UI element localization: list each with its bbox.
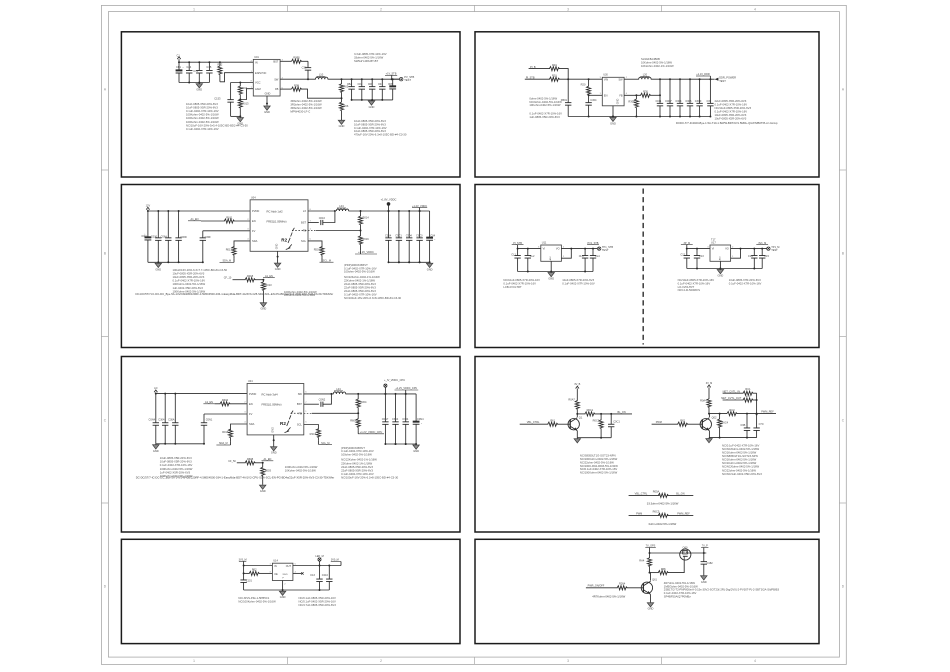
svg-text:R0C1: R0C1 bbox=[587, 408, 594, 412]
net label BL_ON jumper bbox=[667, 492, 693, 495]
note text jumper2 bbox=[649, 522, 677, 526]
resistor R605 enable divider panel5 bbox=[245, 457, 255, 465]
svg-text:GND: GND bbox=[548, 277, 554, 281]
net label NET_CVTL_IN bbox=[723, 389, 744, 393]
svg-text:C305: C305 bbox=[685, 99, 692, 103]
wire base Q2 bbox=[687, 423, 702, 425]
svg-text:PVDD: PVDD bbox=[252, 209, 259, 213]
net label PI_STB bbox=[512, 242, 524, 249]
svg-text:EN: EN bbox=[249, 402, 253, 406]
svg-text:GND: GND bbox=[275, 267, 281, 271]
wire SDA dogleg panel5 bbox=[231, 424, 248, 430]
ground IC U30 bbox=[612, 116, 614, 119]
net label +1.2V_VDDC tap bbox=[355, 250, 377, 254]
svg-text:EN/SYNC: EN/SYNC bbox=[255, 71, 266, 75]
svg-text:CF_10: CF_10 bbox=[224, 277, 232, 280]
svg-text:VBL_CTRL: VBL_CTRL bbox=[527, 421, 540, 424]
svg-text:0.1uF-0402-X7R-10%-16V: 0.1uF-0402-X7R-10%-16V bbox=[160, 463, 193, 467]
ground LDO U17 bbox=[719, 269, 721, 270]
svg-text:NC/10uF-16V-20%-5×5.4-105C-BD-: NC/10uF-16V-20%-5×5.4-105C-BD-BD2-#4-C3-… bbox=[186, 123, 248, 127]
junction dots input rail panel1 bbox=[178, 61, 221, 63]
svg-text:TEST: TEST bbox=[404, 78, 411, 82]
wire emitter ground rail panel6 right bbox=[709, 437, 757, 439]
svg-text:R05: R05 bbox=[388, 82, 393, 86]
svg-text:GND: GND bbox=[155, 267, 161, 271]
note text panel3 right B bbox=[344, 275, 402, 300]
svg-text:CB2: CB2 bbox=[347, 82, 353, 86]
svg-text:TEST: TEST bbox=[771, 248, 778, 252]
svg-text:R013: R013 bbox=[242, 102, 249, 106]
wire SCL dogleg panel5 bbox=[304, 425, 319, 430]
svg-text:1: 1 bbox=[193, 7, 195, 11]
wire enable divider node panel3 bbox=[255, 279, 265, 281]
svg-text:22uF-0805-X5R-20%-6V3: 22uF-0805-X5R-20%-6V3 bbox=[344, 289, 376, 293]
svg-text:SW: SW bbox=[298, 392, 303, 396]
wire control drop bbox=[756, 393, 758, 415]
svg-text:CL2: CL2 bbox=[530, 254, 535, 258]
dashed divider panel4 bbox=[642, 189, 644, 345]
svg-text:R06: R06 bbox=[344, 104, 349, 108]
wire R02 to EN pin bbox=[220, 73, 253, 82]
svg-text:C030: C030 bbox=[151, 234, 158, 238]
svg-text:C304: C304 bbox=[590, 98, 597, 102]
wire IC GND stem panel1 bbox=[266, 96, 268, 105]
note text panel1 bottom right bbox=[354, 119, 407, 137]
svg-text:R2: R2 bbox=[281, 238, 287, 243]
svg-text:PVDD: PVDD bbox=[249, 392, 256, 396]
capacitor CL2 bbox=[525, 249, 535, 272]
svg-text:R62: R62 bbox=[680, 418, 685, 422]
svg-text:R017: R017 bbox=[226, 247, 233, 251]
svg-text:Q61: Q61 bbox=[652, 578, 657, 582]
panel 3 border bbox=[121, 185, 460, 348]
svg-text:NC/1Kohm-0402-5%-1/16W: NC/1Kohm-0402-5%-1/16W bbox=[722, 458, 757, 462]
panel 7 border bbox=[121, 539, 460, 643]
wire ADJ jog U11 bbox=[561, 248, 572, 259]
resistor RC3 series bbox=[727, 408, 737, 416]
wire collector join bbox=[650, 572, 651, 574]
svg-text:GND: GND bbox=[427, 267, 433, 271]
capacitor C04 output bbox=[378, 78, 386, 101]
wire SW to inductor panel5 bbox=[304, 393, 334, 395]
svg-text:C5C1: C5C1 bbox=[395, 234, 402, 238]
svg-text:C010: C010 bbox=[319, 216, 326, 220]
test point DDR_POWER arrow bbox=[710, 76, 736, 83]
capacitor CL4 bbox=[590, 249, 600, 272]
ground panel7 bbox=[282, 590, 284, 591]
svg-text:C76: C76 bbox=[193, 69, 198, 73]
svg-text:CL4: CL4 bbox=[595, 254, 600, 258]
svg-text:CL3: CL3 bbox=[579, 254, 584, 258]
resistor R501 SCL series bbox=[314, 247, 324, 258]
svg-text:C04: C04 bbox=[430, 234, 435, 238]
capacitor C06A bbox=[161, 211, 172, 262]
net label PWM jumper bbox=[629, 512, 660, 515]
svg-text:ADJ: ADJ bbox=[549, 256, 552, 260]
svg-text:R02: R02 bbox=[218, 63, 223, 67]
power flag +1V_VDDC_CPU bbox=[384, 378, 405, 394]
svg-text:R0C2: R0C2 bbox=[593, 418, 600, 422]
transistor Q2 bbox=[700, 415, 717, 430]
svg-text:10uF-0805-X5R-20%-6V3: 10uF-0805-X5R-20%-6V3 bbox=[160, 456, 192, 460]
wire ground rail panel3 input bbox=[148, 261, 204, 263]
wire FV pin panel3 bbox=[203, 230, 250, 232]
ground output caps panel3 bbox=[429, 262, 431, 263]
svg-text:C30F: C30F bbox=[205, 235, 212, 239]
svg-text:SP4BF50A/Q7P0MBz: SP4BF50A/Q7P0MBz bbox=[664, 594, 692, 598]
svg-text:C06D: C06D bbox=[180, 235, 187, 239]
resistor R01b bbox=[549, 74, 559, 82]
capacitor C06D bbox=[175, 211, 186, 262]
svg-text:Q60: Q60 bbox=[683, 546, 688, 550]
resistor R0C2 shunt bbox=[593, 414, 604, 438]
svg-text:3R3ohm-0402-5%-1/16W: 3R3ohm-0402-5%-1/16W bbox=[290, 103, 322, 107]
svg-text:C13: C13 bbox=[699, 254, 704, 258]
power flag 3V_M panel6 bbox=[706, 382, 713, 399]
svg-text:C14: C14 bbox=[748, 254, 753, 258]
note text panel5 right small bbox=[285, 465, 318, 473]
net label +1.2V_VDDC rail bbox=[412, 205, 427, 211]
svg-text:10uF-0805-X5R-20%-6V3: 10uF-0805-X5R-20%-6V3 bbox=[715, 113, 747, 117]
svg-text:C0N1: C0N1 bbox=[206, 417, 213, 421]
svg-text:FV: FV bbox=[249, 412, 253, 416]
wire AAM pin dogleg bbox=[239, 89, 253, 101]
net label CF_10 panel3 bbox=[224, 277, 246, 280]
svg-text:1uF-0805-X5R-20%-6V3: 1uF-0805-X5R-20%-6V3 bbox=[529, 115, 560, 119]
svg-text:NC/22ohm-0402-5%-1/16W: NC/22ohm-0402-5%-1/16W bbox=[580, 460, 614, 464]
capacitor C7C shunt bbox=[753, 414, 763, 437]
svg-text:22uF-0805-X5R-20%-6V3: 22uF-0805-X5R-20%-6V3 bbox=[715, 99, 747, 103]
inductor L04 panel3 bbox=[336, 204, 348, 211]
svg-text:4: 4 bbox=[754, 7, 756, 11]
svg-text:33V0: 33V0 bbox=[282, 574, 288, 576]
zone column numbers bottom bbox=[193, 659, 756, 663]
svg-text:GND: GND bbox=[617, 99, 620, 105]
svg-text:Q1: Q1 bbox=[579, 416, 583, 420]
svg-text:R01: R01 bbox=[552, 63, 557, 67]
wire input rail panel5 bbox=[155, 393, 247, 395]
svg-text:SL9GF8A4B0B: SL9GF8A4B0B bbox=[641, 57, 660, 61]
wire FB pin dashed panel3 bbox=[308, 230, 362, 232]
svg-text:10Kohm-0402-5%-1/16W: 10Kohm-0402-5%-1/16W bbox=[641, 61, 672, 65]
panel 2 border bbox=[475, 32, 819, 177]
svg-text:NC/4.7uF-0805-X5R-20%-6V3: NC/4.7uF-0805-X5R-20%-6V3 bbox=[299, 603, 337, 607]
svg-text:R605: R605 bbox=[247, 457, 254, 461]
capacitor C30A input panel5 bbox=[168, 394, 178, 444]
wire SW node panel1 bbox=[280, 78, 316, 80]
svg-text:C131: C131 bbox=[246, 579, 253, 583]
svg-text:C011: C011 bbox=[655, 99, 661, 103]
resistor R6C4 shunt bbox=[718, 414, 729, 438]
svg-text:U30: U30 bbox=[603, 74, 608, 77]
note text panel3 left bbox=[173, 268, 228, 293]
net label SDA_M panel5 bbox=[216, 442, 230, 445]
ground enable divider panel3 bbox=[262, 301, 264, 304]
wire ground rail panel7 bbox=[244, 589, 330, 591]
note text panel1 top bbox=[354, 52, 387, 63]
net label PV1_STB bbox=[587, 242, 599, 245]
note text panel5 right B bbox=[341, 458, 399, 480]
ground divider panel1 bbox=[239, 116, 241, 117]
svg-text:3: 3 bbox=[567, 7, 569, 11]
resistor R014 feedback upper panel3 bbox=[358, 211, 369, 231]
zone ticks right bbox=[839, 170, 846, 503]
resistor R0B5 bootstrap bbox=[280, 56, 308, 64]
svg-text:IN: IN bbox=[255, 60, 258, 64]
svg-text:C304: C304 bbox=[402, 417, 409, 421]
wire output rail panel3 bbox=[349, 210, 430, 212]
svg-text:MPW4030-LF-C: MPW4030-LF-C bbox=[290, 109, 310, 113]
wire FV pin panel5 bbox=[204, 413, 247, 415]
svg-text:10Kohm-0402-5%-1/16W: 10Kohm-0402-5%-1/16W bbox=[285, 468, 316, 472]
net label +1.1V_DDR bbox=[696, 73, 710, 79]
wire collector Q61 bbox=[650, 573, 652, 581]
svg-text:33.3ohm-0402-5%-1/16W: 33.3ohm-0402-5%-1/16W bbox=[647, 501, 679, 505]
note text panel1 left bbox=[186, 102, 248, 131]
wire IC GND stem panel7 bbox=[282, 581, 284, 591]
svg-text:GND: GND bbox=[610, 121, 616, 125]
zone column numbers top bbox=[193, 7, 756, 11]
net label 7V_GPS bbox=[645, 545, 656, 553]
wire FB pin dashed panel5 bbox=[304, 412, 359, 414]
wire GND stem U11 bbox=[550, 261, 552, 271]
svg-text:R304: R304 bbox=[222, 398, 229, 402]
capacitor C07 output bbox=[357, 78, 365, 101]
ground LDO U11 bbox=[550, 272, 552, 273]
wire base Q61 bbox=[627, 587, 644, 589]
resistor R016 feedback lower panel3 bbox=[358, 231, 369, 251]
resistor R6C5 jumper bbox=[653, 510, 669, 518]
zone row letters left bbox=[104, 87, 107, 588]
svg-text:1uF-0402-X5R-20%-6V3: 1uF-0402-X5R-20%-6V3 bbox=[160, 470, 191, 474]
sheet outer frame bbox=[101, 5, 846, 664]
svg-text:TEST: TEST bbox=[602, 248, 609, 252]
svg-text:U14: U14 bbox=[273, 559, 278, 563]
resistor R04 bbox=[238, 83, 247, 100]
power flag 3V_B bbox=[574, 383, 580, 401]
svg-text:100ohm-0402-5%-1/16W: 100ohm-0402-5%-1/16W bbox=[341, 452, 372, 456]
wire emitter Q61 bbox=[650, 595, 652, 603]
note text panel1 center bbox=[290, 99, 322, 113]
power flag 12V bbox=[146, 204, 151, 211]
resistor R015 enable divider panel3 bbox=[245, 274, 255, 282]
svg-text:R3C4: R3C4 bbox=[310, 432, 317, 436]
svg-text:+1.8V_VDDC: +1.8V_VDDC bbox=[381, 197, 397, 201]
svg-text:100Kohm-0402-5%-1/16W: 100Kohm-0402-5%-1/16W bbox=[285, 465, 318, 469]
svg-text:4R7Kohm-0402-5%-1/16W: 4R7Kohm-0402-5%-1/16W bbox=[592, 594, 625, 598]
IC U14 LDO panel7 bbox=[269, 559, 296, 586]
capacitor C76 bbox=[193, 62, 202, 82]
svg-text:NC/NC/1uF-0402-X5R-20%-6V3: NC/NC/1uF-0402-X5R-20%-6V3 bbox=[722, 472, 762, 476]
capacitor CB1 electrolytic bbox=[176, 62, 185, 82]
capacitor R05 bulk electrolytic bbox=[388, 78, 396, 100]
svg-text:1uF-0402-X5R-20%-6V3: 1uF-0402-X5R-20%-6V3 bbox=[173, 286, 204, 290]
svg-text:C30: C30 bbox=[706, 99, 711, 103]
svg-text:0.1uF-0402-X7R-10%-16V: 0.1uF-0402-X7R-10%-16V bbox=[715, 103, 748, 107]
panel 6 border bbox=[475, 357, 819, 533]
svg-text:SCL: SCL bbox=[297, 423, 303, 427]
resistor R017 SDA series bbox=[226, 247, 236, 259]
wire ground rail panel1 input bbox=[179, 82, 209, 84]
svg-text:C3C0: C3C0 bbox=[695, 99, 702, 103]
capacitor bank output panel5 bbox=[382, 393, 409, 445]
svg-text:TEST: TEST bbox=[719, 79, 726, 83]
wire R01a to input node bbox=[559, 69, 568, 80]
svg-text:R01: R01 bbox=[552, 74, 557, 78]
svg-text:4: 4 bbox=[754, 659, 756, 663]
svg-text:0.1uF-0402-X7R-10%-16V: 0.1uF-0402-X7R-10%-16V bbox=[344, 293, 377, 297]
svg-text:100Kohm-0402-5%-1/16W: 100Kohm-0402-5%-1/16W bbox=[186, 116, 219, 120]
wire output rail panel7 bbox=[293, 565, 341, 567]
ground feedback divider panel1 out bbox=[341, 119, 343, 120]
resistor R30 feedback bbox=[641, 90, 651, 98]
panel 8 border bbox=[475, 539, 819, 643]
svg-text:C04: C04 bbox=[378, 82, 383, 86]
svg-text:VIN: VIN bbox=[604, 77, 608, 81]
svg-text:R2: R2 bbox=[280, 421, 286, 426]
svg-text:GND: GND bbox=[276, 244, 279, 250]
net label PWM_REF jumper bbox=[667, 512, 693, 515]
wire IC GND stem panel3 bbox=[277, 251, 279, 262]
resistor R06 feedback lower bbox=[339, 98, 348, 119]
svg-text:NC/0.1uF-0402-X5R-20%-16V: NC/0.1uF-0402-X5R-20%-16V bbox=[299, 600, 336, 604]
svg-text:22uF-0805-X5R-20%-6V3: 22uF-0805-X5R-20%-6V3 bbox=[344, 282, 376, 286]
resistor R603 enable divider panel5 bbox=[261, 463, 272, 485]
capacitor C131 input panel7 bbox=[240, 579, 252, 590]
zone row letters right bbox=[842, 87, 845, 588]
net label PWM base bbox=[652, 421, 679, 424]
note text panel5 bottom long bbox=[136, 475, 335, 479]
note text panel7 left bbox=[238, 596, 276, 603]
net label NET_CVTL_OUT bbox=[721, 396, 743, 400]
wire emitter ground rail panel6 left bbox=[577, 437, 611, 439]
wire FB pin to divider bbox=[280, 83, 342, 99]
svg-text:2: 2 bbox=[380, 7, 382, 11]
svg-text:CE: CE bbox=[274, 572, 278, 576]
svg-text:C3C3: C3C3 bbox=[416, 234, 423, 238]
svg-text:PWM_REF: PWM_REF bbox=[677, 512, 690, 515]
wire emitter Q1 bbox=[576, 431, 578, 438]
svg-text:0.1uF-0402-X7R-10%-16V: 0.1uF-0402-X7R-10%-16V bbox=[354, 126, 387, 130]
svg-text:0ohm-0402-5%-1/16W: 0ohm-0402-5%-1/16W bbox=[649, 522, 677, 526]
svg-text:DC-DC/5T/7-IC-DC-DC_Bye-5A-14V: DC-DC/5T/7-IC-DC-DC_Bye-5A-14V24940B/220… bbox=[136, 475, 335, 479]
svg-text:Q02: Q02 bbox=[712, 415, 717, 419]
wire supply rail panel8 bbox=[649, 552, 681, 554]
wire LX to inductor panel3 bbox=[308, 210, 336, 212]
svg-text:C3B: C3B bbox=[740, 423, 745, 427]
no connect pin panel7 bbox=[293, 572, 304, 574]
svg-text:22uF-0805-X5R-20%-6V3: 22uF-0805-X5R-20%-6V3 bbox=[344, 286, 376, 290]
svg-text:RC2: RC2 bbox=[746, 396, 751, 398]
svg-text:RC3: RC3 bbox=[729, 408, 735, 412]
svg-text:GND: GND bbox=[196, 88, 202, 92]
note text Q1 block bbox=[580, 453, 618, 474]
svg-text:GND: GND bbox=[264, 110, 270, 114]
svg-text:C15: C15 bbox=[764, 254, 769, 258]
net label A1_EN source panel3 bbox=[263, 275, 275, 278]
svg-text:100Kohm-0402-5%-1/16W: 100Kohm-0402-5%-1/16W bbox=[186, 120, 219, 124]
note text U17 right bbox=[729, 278, 762, 285]
panel 5 border bbox=[121, 357, 460, 533]
resistor R264 base panel8 bbox=[617, 582, 627, 590]
capacitor C3B shunt bbox=[740, 414, 750, 438]
resistor R304 enable panel5 bbox=[220, 398, 230, 406]
note text panel2 right bbox=[715, 99, 752, 121]
wire R304 to EN pin panel5 bbox=[230, 403, 248, 405]
wire base Q1 bbox=[557, 423, 570, 425]
svg-text:NC/100Kohm-0402-5%-1/16W: NC/100Kohm-0402-5%-1/16W bbox=[238, 600, 276, 604]
svg-text:GND: GND bbox=[339, 124, 345, 128]
transistor Q1 bbox=[568, 416, 583, 431]
svg-text:10uF-0805-X7R-20%-6V3: 10uF-0805-X7R-20%-6V3 bbox=[729, 278, 761, 282]
svg-text:GND: GND bbox=[265, 92, 271, 96]
wire SW to inductor panel2 bbox=[624, 78, 639, 80]
svg-text:BST: BST bbox=[301, 221, 306, 225]
net label +1.2V_VDDC_CPU rail bbox=[395, 387, 419, 394]
net label SCL_M panel5 bbox=[318, 440, 332, 445]
svg-text:BST: BST bbox=[297, 402, 302, 406]
resistor R0A7 collector pullup bbox=[568, 398, 579, 415]
svg-text:U04: U04 bbox=[248, 380, 253, 383]
wire input drop panel7 bbox=[243, 566, 245, 581]
svg-text:L10: L10 bbox=[319, 73, 324, 77]
svg-text:B: B bbox=[842, 251, 844, 255]
svg-text:3.3uF-0805-X7R-10%-16V: 3.3uF-0805-X7R-10%-16V bbox=[354, 52, 387, 56]
svg-text:GND: GND bbox=[369, 105, 375, 109]
svg-text:NC/S8050LT1G-SOT23-NPN: NC/S8050LT1G-SOT23-NPN bbox=[722, 454, 758, 458]
svg-text:C06A: C06A bbox=[161, 234, 168, 238]
svg-text:PWM: PWM bbox=[656, 421, 662, 424]
svg-text:R264: R264 bbox=[619, 582, 626, 586]
svg-text:C0N4: C0N4 bbox=[148, 417, 155, 421]
note text U11 left bbox=[503, 278, 540, 289]
note text panel3 right A bbox=[344, 263, 377, 274]
svg-text:0.1uF-0402-X7R-10%-16V: 0.1uF-0402-X7R-10%-16V bbox=[503, 281, 536, 285]
resistor RC1 bbox=[743, 387, 757, 396]
ground Q2 emitter bbox=[708, 438, 710, 439]
capacitor CL3 bbox=[579, 249, 589, 272]
panel 1 border bbox=[121, 32, 460, 177]
svg-text:R61: R61 bbox=[550, 418, 555, 422]
capacitor C0C1 shunt bbox=[608, 414, 620, 438]
capacitor C030 bbox=[151, 211, 162, 262]
capacitor bank output panel3 bbox=[385, 210, 423, 263]
wire ADJ jog U17 bbox=[731, 248, 742, 259]
svg-text:0.1uF-0402-X7R-10%-16V: 0.1uF-0402-X7R-10%-16V bbox=[186, 109, 219, 113]
IC U30 regulator bbox=[600, 74, 628, 106]
wire ground rail output panel3 bbox=[389, 261, 431, 263]
svg-text:U11: U11 bbox=[542, 240, 547, 244]
svg-text:C0N4: C0N4 bbox=[417, 417, 424, 421]
net label VBL_CTRL bbox=[520, 421, 549, 424]
svg-text:BL_ON: BL_ON bbox=[617, 411, 625, 414]
resistor R02 bbox=[218, 62, 223, 82]
svg-text:R62: R62 bbox=[252, 568, 257, 572]
note text jumper1 bbox=[647, 501, 679, 505]
svg-text:T17: T17 bbox=[711, 237, 716, 241]
wire gate riser bbox=[668, 559, 685, 572]
annotation R2 marker panel5 bbox=[280, 411, 303, 433]
svg-text:10uF-0805-X5R-20%-6V3: 10uF-0805-X5R-20%-6V3 bbox=[354, 129, 386, 133]
svg-text:10uF-0805-X5R-20%-6V3: 10uF-0805-X5R-20%-6V3 bbox=[186, 102, 218, 106]
note text panel2 bottom bbox=[676, 121, 778, 125]
wire collector Q2 bbox=[708, 414, 710, 417]
svg-text:SCL: SCL bbox=[301, 239, 307, 243]
wire input rail panel2 bbox=[559, 78, 602, 80]
wire input rail panel7 bbox=[243, 565, 273, 567]
IC U04 DCDC panel3 bbox=[247, 196, 311, 251]
svg-text:C304: C304 bbox=[158, 417, 165, 421]
